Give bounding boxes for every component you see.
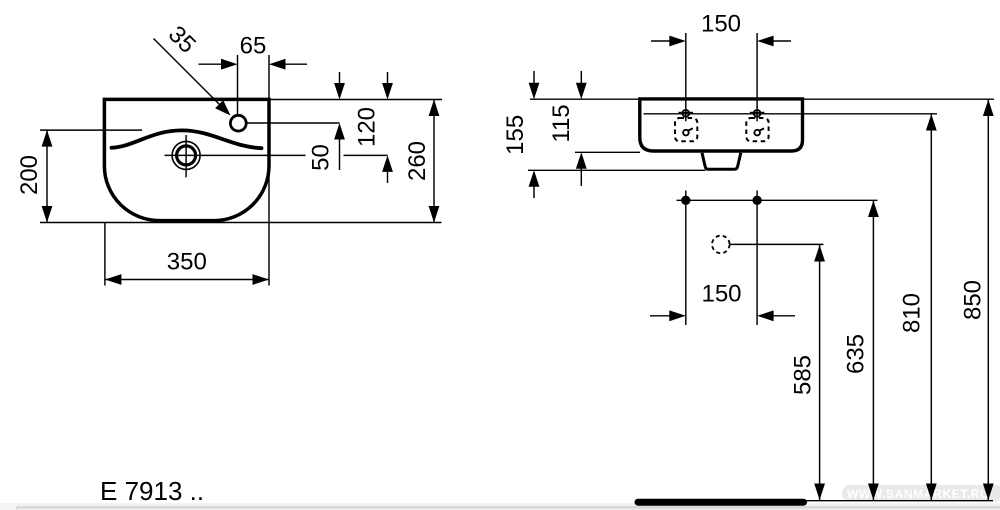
svg-text:50: 50	[308, 144, 335, 171]
mounting dot left	[681, 196, 690, 205]
drain level line left segment	[165, 154, 306, 156]
bottom reference line	[40, 222, 442, 224]
svg-text:200: 200	[16, 155, 43, 195]
svg-text:115: 115	[548, 104, 575, 142]
screw symbol right	[750, 106, 765, 121]
screw hook left	[683, 128, 693, 135]
screw hook right	[754, 128, 764, 135]
floor thick line	[638, 499, 804, 506]
dim 65 label	[240, 33, 267, 60]
supply line	[730, 243, 824, 245]
svg-text:WWW.SANMARKET.RU: WWW.SANMARKET.RU	[847, 487, 989, 501]
faucet hole	[230, 115, 246, 131]
dim 350 extension left	[104, 223, 106, 286]
dim 635 line	[868, 201, 879, 501]
mounting dots line	[677, 199, 878, 201]
side view trap	[702, 153, 741, 170]
basin front view outline	[104, 99, 269, 220]
dim 65 extension left	[237, 55, 239, 114]
drain level line right segment	[344, 154, 388, 156]
dim 150 bottom arrow right	[757, 310, 795, 321]
dim 635 label	[843, 334, 870, 374]
screw axis line	[644, 113, 938, 115]
dim 200 line	[42, 130, 53, 222]
dim 65 arrow right	[269, 59, 307, 70]
top edge extension line	[269, 99, 442, 101]
dim 350 extension right	[268, 100, 270, 286]
dim 150 bottom label	[701, 281, 741, 308]
dim 115 label	[548, 104, 575, 142]
dim 260 label	[404, 141, 431, 181]
leader 35 label	[163, 21, 201, 59]
svg-text:350: 350	[167, 249, 207, 276]
svg-text:150: 150	[701, 11, 741, 38]
leader 35	[154, 39, 231, 116]
trap bottom extension line	[528, 169, 706, 171]
dim 150 top extension left	[685, 33, 687, 108]
dim 200 extension top	[40, 129, 142, 131]
svg-text:65: 65	[240, 33, 267, 60]
bottom grey strip	[0, 503, 1000, 510]
model code label	[100, 476, 204, 506]
drain outer circle	[172, 141, 200, 169]
side view body outline	[640, 99, 803, 151]
dim 155 arrow bottom	[529, 170, 540, 198]
mounting hole dashed square left	[675, 118, 697, 141]
dim 150 bottom arrow left	[650, 310, 686, 321]
mounting vertical left	[685, 191, 687, 326]
dim 150 top arrow left	[651, 36, 686, 47]
floor thin line	[804, 500, 993, 502]
dim 65 extension right	[268, 55, 270, 98]
dim 50 label	[308, 144, 335, 171]
body bottom extension line	[575, 151, 640, 153]
dim 150 top arrow right	[757, 36, 791, 47]
top reference line	[530, 98, 994, 100]
dim 200 label	[16, 155, 43, 195]
dim 810 line	[926, 114, 937, 500]
dim 50 arrow bottom	[334, 123, 345, 170]
screw symbol left	[679, 106, 694, 121]
drain crosshair vertical	[185, 135, 187, 177]
dim 850 line	[983, 100, 994, 501]
svg-text:585: 585	[790, 355, 817, 395]
svg-text:120: 120	[354, 107, 381, 147]
dim 115 arrow top	[576, 71, 587, 99]
drain inner circle	[177, 146, 196, 165]
dim 115 arrow bottom	[576, 152, 587, 186]
svg-text:E 7913 ..: E 7913 ..	[100, 476, 204, 506]
watermark pill	[842, 485, 1000, 502]
dim 810 label	[899, 293, 926, 333]
mounting vertical right	[756, 191, 758, 326]
dim 155 arrow top	[529, 71, 540, 99]
dim 260 line	[429, 100, 440, 223]
svg-text:155: 155	[502, 115, 529, 155]
basin rim wave	[112, 130, 262, 148]
dim 585 line	[814, 245, 825, 500]
dim 120 arrow top	[382, 72, 393, 100]
dim 65 arrow left	[199, 59, 238, 70]
dim 120 arrow bottom	[382, 155, 393, 183]
mounting dot right	[752, 196, 761, 205]
dim 850 label	[960, 280, 987, 320]
dim 585 label	[790, 355, 817, 395]
svg-text:850: 850	[960, 280, 987, 320]
dim 350 line	[105, 274, 269, 285]
svg-text:635: 635	[843, 334, 870, 374]
dim 150 top extension right	[756, 33, 758, 108]
svg-text:810: 810	[899, 293, 926, 333]
svg-text:150: 150	[701, 281, 741, 308]
dim 50 arrow top	[334, 72, 345, 100]
dim 350 label	[167, 249, 207, 276]
faucet level line	[246, 122, 340, 124]
mounting hole dashed square right	[746, 118, 768, 141]
dim 155 label	[502, 115, 529, 155]
svg-text:260: 260	[404, 141, 431, 181]
supply dashed circle	[712, 236, 730, 254]
dim 150 top label	[701, 11, 741, 38]
dim 120 label	[354, 107, 381, 147]
